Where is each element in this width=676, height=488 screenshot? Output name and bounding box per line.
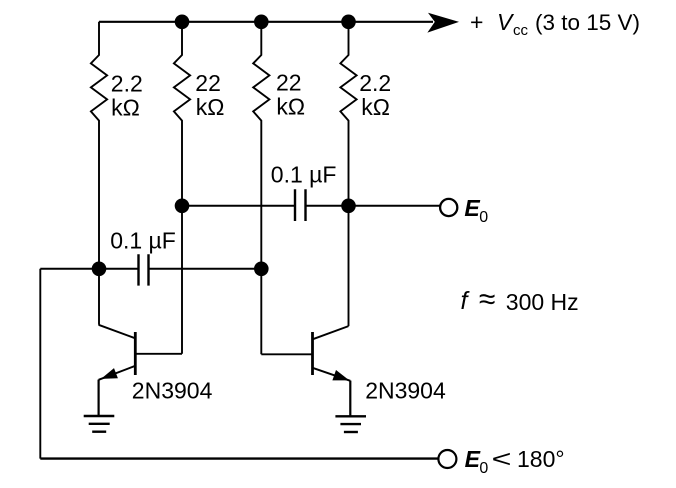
transistor Q1 collector diagonal: [99, 325, 136, 339]
wire upper coupling (Q1 base node to C2 to E0): [182, 205, 440, 207]
svg-text:0: 0: [479, 209, 488, 226]
svg-text:<: <: [492, 446, 512, 473]
label f approx 300 Hz: [461, 283, 579, 316]
terminal E0 less than 180 output: [438, 450, 456, 468]
junction dot Q2 base node: [254, 262, 269, 277]
transistor Q1 base bar: [134, 332, 137, 375]
wire Q2 emitter to ground: [349, 381, 351, 417]
wire Q1 emitter to ground: [97, 380, 99, 416]
label R2 value: [195, 70, 224, 120]
label E0: [464, 195, 488, 226]
svg-text:2.2: 2.2: [111, 70, 143, 96]
svg-text:22: 22: [195, 70, 221, 96]
wire feedback left rail: [39, 269, 41, 459]
transistor Q1 emitter diagonal: [99, 366, 136, 380]
label +Vcc (3 to 15 V): [470, 9, 640, 39]
resistor R2 22k with wire from rail to Q1 base: [174, 22, 190, 354]
junction dot Q1 base node: [175, 199, 190, 214]
label E0 < 180: [465, 446, 565, 477]
junction dot Q2 collector node: [341, 199, 356, 214]
resistor R1 2.2k with wire from rail to Q1 collector: [91, 22, 107, 325]
svg-text:+: +: [470, 9, 483, 35]
svg-text:22: 22: [276, 69, 302, 95]
wire Q1 base to R2: [135, 353, 182, 355]
svg-text:180°: 180°: [517, 446, 565, 472]
svg-text:cc: cc: [513, 22, 529, 39]
resistor R4 2.2k with wire from rail to Q2 collector: [340, 22, 356, 326]
svg-text:0.1 µF: 0.1 µF: [110, 227, 176, 253]
wire bottom (to output E0<180): [40, 457, 438, 459]
label R3 value: [276, 69, 305, 119]
Vcc arrow head: [427, 13, 459, 33]
label R1 value: [111, 70, 143, 120]
transistor Q2 emitter arrow: [332, 370, 349, 380]
svg-text:≈: ≈: [479, 283, 495, 316]
transistor Q2 base bar: [311, 332, 314, 375]
svg-text:(3 to 15 V): (3 to 15 V): [535, 10, 640, 35]
svg-text:kΩ: kΩ: [276, 93, 305, 119]
capacitor C1 0.1uF plates: [139, 254, 149, 285]
svg-text:2.2: 2.2: [359, 70, 391, 96]
wire lower coupling (left rail to C1 to Q2 base node): [40, 268, 261, 270]
terminal E0 output: [440, 199, 457, 216]
svg-text:kΩ: kΩ: [361, 94, 390, 120]
label R4 value: [359, 70, 391, 120]
junction dot rail-R4: [341, 14, 356, 29]
wire Q2 base to R3: [261, 353, 312, 355]
resistor R3 22k with wire from rail to Q2 base: [253, 22, 269, 355]
transistor Q1 emitter arrow: [101, 368, 118, 379]
ground Q1: [84, 416, 115, 432]
svg-text:kΩ: kΩ: [111, 94, 140, 120]
ground Q2: [335, 416, 366, 432]
svg-text:E: E: [465, 446, 481, 472]
capacitor C2 0.1uF plates: [295, 189, 306, 221]
junction dot rail-R2: [175, 14, 190, 29]
transistor Q2 collector diagonal: [313, 326, 349, 339]
svg-text:kΩ: kΩ: [196, 94, 225, 120]
junction dot rail-R3: [254, 14, 269, 29]
wire top supply rail: [99, 21, 433, 23]
svg-text:E: E: [464, 195, 480, 221]
transistor Q2 emitter diagonal: [313, 368, 351, 381]
svg-text:2N3904: 2N3904: [132, 378, 213, 404]
junction dot Q1 collector node: [92, 262, 107, 277]
svg-text:2N3904: 2N3904: [365, 378, 446, 404]
svg-text:300 Hz: 300 Hz: [506, 289, 579, 315]
svg-text:0.1 µF: 0.1 µF: [271, 162, 337, 188]
svg-text:0: 0: [479, 460, 488, 477]
